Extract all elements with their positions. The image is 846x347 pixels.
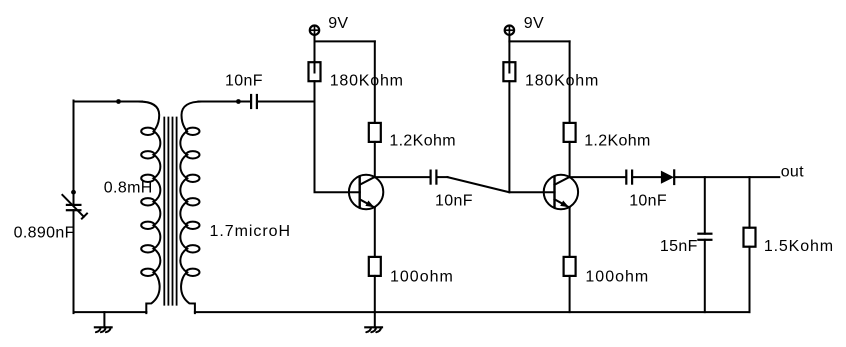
wire: collector column upper stage1 <box>374 41 376 123</box>
wire: top rail stage2 <box>509 40 569 42</box>
transformer T1: primary loop 4 <box>141 198 154 205</box>
wire: left loop top horizontal <box>74 101 143 103</box>
svg-text:1.2Kohm: 1.2Kohm <box>584 132 651 149</box>
svg-text:1.5Kohm: 1.5Kohm <box>764 238 834 255</box>
transformer T1: secondary loop 1 <box>186 128 199 135</box>
transformer T1: primary winding 0.8mH <box>139 102 160 314</box>
resistor R2 1.2Kohm stage1 <box>369 123 381 142</box>
ground: left ground symbol <box>95 312 112 332</box>
power V+ 9V stage2 <box>505 26 514 35</box>
capacitor C2 10nF: right plate <box>256 95 258 108</box>
capacitor C4 10nF: left plate <box>625 171 627 184</box>
resistor R6 100ohm stage2 <box>564 257 576 276</box>
svg-text:1.7microH: 1.7microH <box>210 223 291 240</box>
transformer T1: secondary loop 6 <box>186 245 199 252</box>
node: dot on top-left wire <box>116 99 121 104</box>
transformer T1: secondary loop 4 <box>186 198 199 205</box>
wire: R6 to bottom rail stage2 <box>569 276 571 312</box>
wire: diode to out terminal <box>674 176 779 178</box>
capacitor C2 10nF: left plate <box>250 95 252 108</box>
svg-text:0.890nF: 0.890nF <box>14 225 75 242</box>
transformer T1: secondary loop 5 <box>186 222 199 229</box>
resistor R3 100ohm stage1 <box>369 257 381 276</box>
capacitor C1 variable: arrow tail tick <box>82 214 87 219</box>
svg-text:180Kohm: 180Kohm <box>525 72 599 89</box>
transformer T1: core line 4 <box>176 118 178 305</box>
transistor Q1 <box>349 175 383 209</box>
svg-text:180Kohm: 180Kohm <box>330 72 404 89</box>
transformer T1: primary loop 1 <box>141 128 154 135</box>
transformer T1: primary loop 7 <box>141 269 154 276</box>
transformer T1: primary loop 2 <box>141 151 154 158</box>
transformer T1: secondary winding 1.7microH <box>180 102 201 314</box>
wire: supply stub into R4 stage2 <box>508 36 510 73</box>
wire: cap C3 short segment <box>438 176 448 178</box>
capacitor C3 10nF: right plate <box>435 171 437 184</box>
transformer T1: core line 1 <box>163 118 165 305</box>
resistor R1 180Kohm stage1 <box>309 62 321 81</box>
wire: emitter column stage2 <box>569 207 571 257</box>
ground: stage1 ground symbol <box>365 312 382 332</box>
wire: cap C4 to diode <box>633 176 661 178</box>
capacitor C3 10nF: left plate <box>430 171 432 184</box>
wire: 15nF branch upper <box>704 177 706 234</box>
wire: 1.5Kohm branch lower <box>749 247 751 312</box>
svg-text:out: out <box>781 164 804 181</box>
wire: left loop left vertical lower <box>73 210 75 313</box>
transformer T1: secondary loop 3 <box>186 175 199 182</box>
capacitor C5 15nF: top plate <box>698 233 711 235</box>
wire: top rail stage1 <box>315 40 375 42</box>
wire: 1.5Kohm branch upper <box>749 177 751 228</box>
wire: cap C2 to base column stage1 <box>258 101 315 103</box>
svg-text:9V: 9V <box>524 15 544 32</box>
wire: R3 to bottom rail stage1 <box>374 276 376 312</box>
wire: collector out stage2 <box>570 176 626 178</box>
wire: collector column upper stage2 <box>569 41 571 123</box>
capacitor C4 10nF: right plate <box>631 171 633 184</box>
wire: R2 to collector junction stage1 <box>374 142 376 177</box>
power V+ 9V stage1 <box>310 26 319 35</box>
svg-text:10nF: 10nF <box>435 193 473 210</box>
resistor R7 1.5Kohm <box>744 228 756 247</box>
wire: diagonal to stage2 base junction <box>448 177 510 192</box>
transformer T1: primary loop 5 <box>141 222 154 229</box>
transformer T1: core line 2 <box>167 118 169 305</box>
svg-text:10nF: 10nF <box>629 193 667 210</box>
transformer T1: core line 3 <box>172 118 174 305</box>
resistor R4 180Kohm stage2 <box>503 62 515 81</box>
wire: bottom rail right section <box>195 311 750 313</box>
capacitor C1 0.890nF variable: top plate <box>67 204 81 206</box>
wire: base column stage1 <box>315 81 360 192</box>
wire: emitter column stage1 <box>374 207 376 257</box>
wire: collector out stage1 <box>375 176 430 178</box>
node: dot above variable capacitor <box>71 190 76 195</box>
svg-text:15nF: 15nF <box>660 238 698 255</box>
wire: secondary top to coupling cap <box>199 101 251 103</box>
svg-text:9V: 9V <box>328 15 348 32</box>
resistor R5 1.2Kohm stage2 <box>564 123 576 142</box>
wire: 15nF branch lower <box>704 240 706 312</box>
transformer T1: primary loop 6 <box>141 245 154 252</box>
svg-text:100ohm: 100ohm <box>390 268 454 285</box>
wire: supply stub into R1 stage1 <box>314 36 316 73</box>
svg-text:1.2Kohm: 1.2Kohm <box>389 132 456 149</box>
transformer T1: secondary loop 7 <box>186 269 199 276</box>
capacitor C5 15nF: bottom plate <box>698 239 711 241</box>
wire: base column stage2 <box>509 81 554 192</box>
transistor Q2 <box>544 175 578 209</box>
transformer T1: secondary loop 2 <box>186 151 199 158</box>
transformer T1: primary loop 3 <box>141 175 154 182</box>
svg-text:100ohm: 100ohm <box>585 268 649 285</box>
wire: left loop left vertical upper <box>73 101 75 205</box>
wire: left loop bottom horizontal <box>74 311 147 313</box>
svg-text:0.8mH: 0.8mH <box>104 179 153 196</box>
capacitor C1 0.890nF variable: bottom plate <box>67 209 81 211</box>
wire: R5 to collector junction stage2 <box>569 142 571 177</box>
diode D1 <box>661 170 674 184</box>
svg-text:10nF: 10nF <box>225 72 263 89</box>
capacitor C1 variable: arrow diagonal <box>62 195 83 217</box>
node: dot before capacitor C2 <box>236 99 241 104</box>
